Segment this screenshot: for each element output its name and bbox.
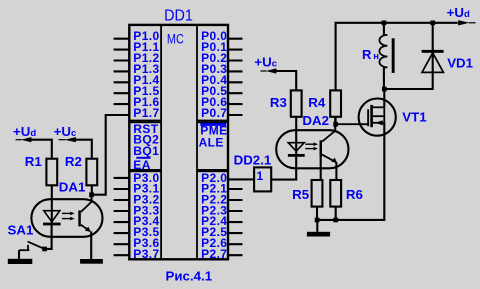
wire +Uc to R3 bbox=[273, 71, 296, 90]
wire R1 bottom to DA1 LED bbox=[51, 185, 53, 224]
switch SA1 bbox=[19, 242, 45, 251]
DA1 phototransistor bbox=[78, 195, 91, 259]
resistor R6 bbox=[330, 180, 341, 207]
R3 label bbox=[270, 95, 287, 110]
resistor R5 bbox=[312, 180, 323, 207]
svg-text:VT1: VT1 bbox=[402, 110, 427, 125]
wire R5 bottom to rail bbox=[316, 207, 318, 220]
svg-text:R: R bbox=[362, 47, 372, 62]
svg-text:Рис.4.1: Рис.4.1 bbox=[166, 269, 213, 284]
power terminal +Ud (top right) bbox=[447, 5, 476, 25]
svg-text:DD2.1: DD2.1 bbox=[234, 153, 272, 168]
wire VT1 source to ground rail bbox=[317, 123, 384, 220]
ground (SA1) bbox=[8, 259, 33, 264]
resistor R2 bbox=[86, 159, 97, 186]
optocoupler DA1 body bbox=[31, 199, 102, 237]
wire +Ud to R1 bbox=[31, 140, 52, 158]
VD1 label bbox=[447, 56, 473, 71]
node G junction dot (R5/rail/ground) bbox=[315, 218, 320, 223]
wire P2.0 pin to DD2.1 input bbox=[228, 178, 253, 180]
wire VT1 drain to node E bbox=[383, 89, 385, 107]
DA1 light arrows bbox=[62, 212, 75, 221]
svg-text:+Uc: +Uc bbox=[254, 54, 277, 69]
Rn core bar bbox=[392, 38, 395, 73]
DA1 LED (anode top, cathode bar bottom) bbox=[43, 211, 61, 249]
pin-group box RST/BQ/EA bbox=[129, 122, 161, 170]
R4 label bbox=[308, 95, 326, 110]
pin-group box port P1 bbox=[129, 25, 161, 121]
node F junction dot bbox=[430, 21, 435, 26]
svg-text:P3.7: P3.7 bbox=[133, 247, 159, 261]
wire rail to Rn coil bbox=[383, 23, 385, 35]
inductive load Rn coil bbox=[379, 35, 387, 67]
svg-text:+Ud: +Ud bbox=[13, 124, 36, 139]
svg-text:ALE: ALE bbox=[199, 136, 224, 150]
DD2.1 function symbol "1" bbox=[257, 169, 264, 183]
wire DA2 base to R5 bbox=[320, 157, 322, 181]
P0 pin stubs bbox=[228, 39, 243, 115]
resistor R4 bbox=[330, 90, 341, 116]
optocoupler DA2 body bbox=[276, 130, 348, 168]
node B junction dot (SA1/LED cathode) bbox=[42, 247, 47, 252]
SA1 label bbox=[8, 222, 34, 237]
caption Рис.4.1 bbox=[166, 269, 213, 284]
pin-group box PME/ALE bbox=[197, 122, 228, 170]
svg-text:P0.7: P0.7 bbox=[201, 106, 227, 120]
R5 label bbox=[292, 187, 310, 202]
svg-text:+Ud: +Ud bbox=[447, 5, 470, 20]
svg-text:EA: EA bbox=[133, 158, 150, 172]
logic inverter DD2.1 bbox=[254, 167, 271, 191]
svg-text:н: н bbox=[373, 51, 379, 62]
wire +Uc to R2 bbox=[71, 140, 92, 158]
P1 pin stubs bbox=[114, 39, 130, 104]
power terminal +Uc (left) bbox=[54, 124, 77, 142]
resistor R3 bbox=[291, 90, 302, 116]
wire R4 bottom to node C bbox=[335, 117, 337, 124]
svg-text:R4: R4 bbox=[308, 95, 326, 110]
svg-text:+Uc: +Uc bbox=[54, 124, 77, 139]
P2 pin stubs (P2.1-P2.7) bbox=[228, 189, 243, 255]
VT1 label bbox=[402, 110, 427, 125]
pin-group box port P2 bbox=[197, 171, 228, 259]
DD2.1 label bbox=[234, 153, 272, 168]
wire P1.7 pin to node A bbox=[94, 115, 130, 195]
wire Rn bottom to node E bbox=[383, 67, 385, 89]
svg-text:R1: R1 bbox=[25, 154, 43, 169]
svg-text:DA1: DA1 bbox=[59, 180, 86, 195]
svg-text:R6: R6 bbox=[346, 187, 363, 202]
wire DA2 emitter to R6 bbox=[335, 162, 337, 180]
svg-text:P1.7: P1.7 bbox=[133, 106, 159, 120]
DA2 label bbox=[302, 113, 329, 128]
R6 label bbox=[346, 187, 363, 202]
svg-text:VD1: VD1 bbox=[447, 56, 473, 71]
svg-text:R5: R5 bbox=[292, 187, 310, 202]
node H junction dot (R6/rail) bbox=[333, 218, 338, 223]
node A junction dot bbox=[89, 192, 94, 197]
DA2 light arrows bbox=[305, 142, 318, 150]
node C junction dot bbox=[333, 122, 338, 127]
svg-text:DD1: DD1 bbox=[164, 7, 193, 25]
wire R6 bottom to rail bbox=[335, 207, 337, 220]
svg-text:MC: MC bbox=[167, 31, 184, 47]
power terminal +Uc (right) bbox=[254, 54, 277, 73]
wire SA1 to ground bbox=[18, 250, 20, 259]
svg-text:R2: R2 bbox=[65, 154, 82, 169]
DA2 phototransistor bbox=[320, 131, 338, 163]
svg-text:DA2: DA2 bbox=[302, 113, 329, 128]
wire DD2.1 output to DA2 LED cathode bbox=[271, 157, 296, 180]
P3 pin stubs bbox=[114, 178, 130, 255]
node D junction dot (rail / Rn top) bbox=[382, 21, 387, 26]
MC function label inside DD1 bbox=[167, 31, 184, 47]
ground (R5/R6/VT1 source) bbox=[307, 232, 330, 237]
DA1 label bbox=[59, 180, 86, 195]
pin-group box port P0 bbox=[197, 25, 228, 121]
svg-text:R3: R3 bbox=[270, 95, 287, 110]
R2 label bbox=[65, 154, 82, 169]
svg-text:SA1: SA1 bbox=[8, 222, 34, 237]
node E junction dot (Rn/VD1/VT1 drain) bbox=[382, 87, 387, 92]
transistor VT1 (MOSFET) bbox=[359, 99, 396, 136]
wire R2 bottom to node A bbox=[91, 185, 93, 194]
PME pin label with thick overline, ALE label bbox=[199, 123, 228, 150]
P3 pin name labels bbox=[133, 171, 159, 261]
Rn label bbox=[362, 47, 379, 62]
pin-group box port P3 bbox=[129, 171, 161, 259]
wire node C to VT1 gate bbox=[336, 123, 369, 125]
diode VD1 bbox=[422, 50, 444, 73]
P0 pin name labels bbox=[201, 29, 227, 120]
DA2 LED (anode top, cathode bar bottom) bbox=[288, 118, 305, 157]
power terminal +Ud (left) bbox=[13, 124, 36, 142]
R1 label bbox=[25, 154, 43, 169]
P2 pin name labels bbox=[201, 171, 227, 261]
RST BQ2 BQ1 EA pin labels bbox=[133, 122, 159, 172]
resistor R1 bbox=[46, 159, 57, 186]
P1 pin name labels bbox=[133, 29, 159, 120]
svg-text:BQ1: BQ1 bbox=[133, 144, 159, 158]
wire node E to VD1 anode bbox=[384, 23, 433, 89]
wire DA2 collector to node C bbox=[334, 118, 336, 131]
DD1 reference designator label bbox=[164, 7, 193, 25]
svg-text:P2.7: P2.7 bbox=[201, 247, 227, 261]
microcontroller DD1 body bbox=[129, 25, 228, 259]
wire R4 top to +Ud rail bbox=[336, 23, 458, 91]
ground (DA1 emitter) bbox=[80, 259, 103, 264]
wire rail to ground bbox=[316, 220, 318, 232]
svg-text:1: 1 bbox=[257, 169, 264, 183]
